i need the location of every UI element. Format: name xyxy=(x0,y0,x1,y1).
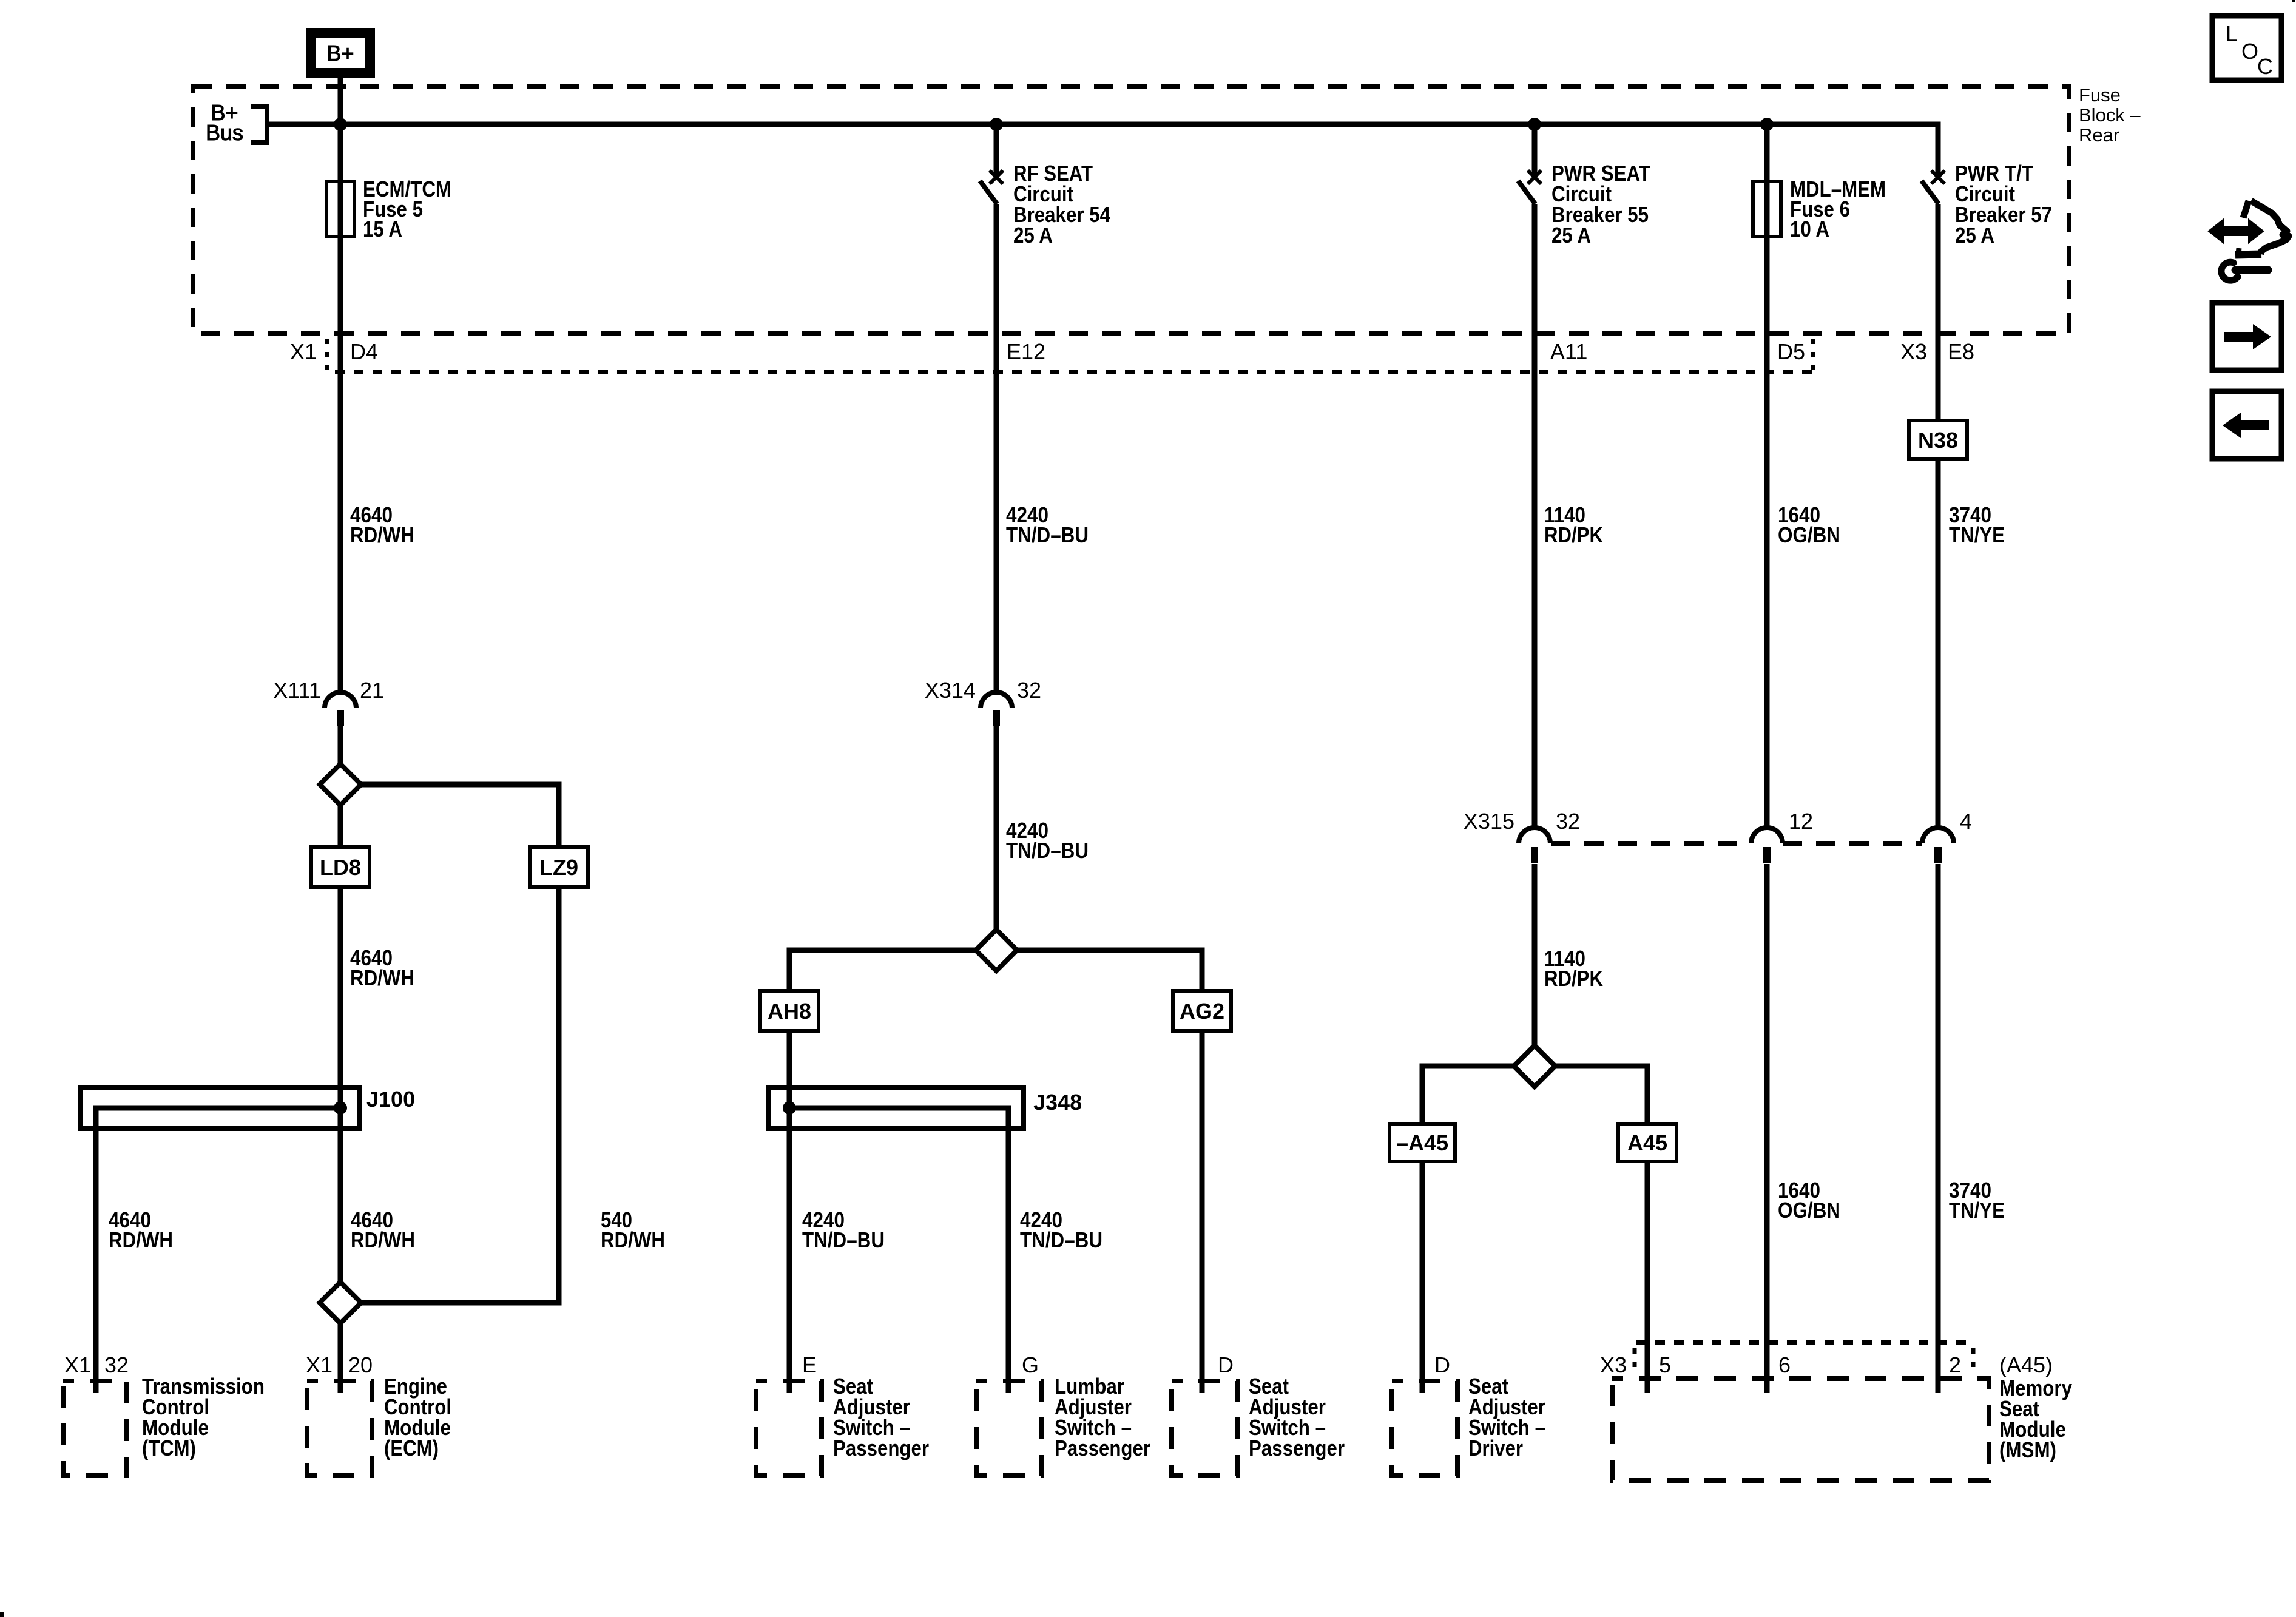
wire 12 connector to MSM pin 6 xyxy=(1764,864,1770,1393)
svg-text:32: 32 xyxy=(104,1352,129,1377)
back arrow icon xyxy=(2212,391,2281,459)
svg-text:4: 4 xyxy=(1960,809,1972,834)
wire col2 bus to breaker xyxy=(994,124,999,175)
svg-text:X3: X3 xyxy=(1900,339,1927,364)
svg-text:E12: E12 xyxy=(1007,339,1045,364)
wire col3 bus to breaker xyxy=(1532,124,1538,175)
svg-text:12: 12 xyxy=(1789,809,1813,834)
svg-text:X111: X111 xyxy=(273,678,321,703)
wire LD8 down through J100 to S4 xyxy=(338,887,343,1282)
fusible link N38 xyxy=(1909,420,1967,459)
page artifact bottom-left xyxy=(0,1612,4,1617)
circuit breaker 57 PWR T/T 25A xyxy=(1922,161,2052,248)
wire AH8 down through J348 to switch E xyxy=(787,1031,792,1393)
B+ bus wire xyxy=(267,124,1938,175)
pin labels X1 32 (TCM) xyxy=(64,1352,129,1377)
B+ battery feed symbol xyxy=(311,33,370,73)
svg-text:Bus: Bus xyxy=(206,120,243,145)
svg-text:AH8: AH8 xyxy=(768,999,811,1024)
pin labels X3 5 6 2 (A45) xyxy=(1600,1352,2053,1377)
svg-text:A11: A11 xyxy=(1550,339,1587,364)
wire S2 right branch to AG2 xyxy=(1017,950,1202,992)
module TCM dashed box xyxy=(63,1381,127,1476)
module Seat Adjuster Switch Passenger 1 dashed box xyxy=(756,1381,822,1476)
module ECM dashed box xyxy=(307,1381,372,1476)
dotted separator right of X3 xyxy=(1633,1348,1637,1375)
splice pack J348 xyxy=(769,1087,1082,1129)
svg-text:6: 6 xyxy=(1778,1352,1791,1377)
dotted separator left of D4 xyxy=(325,339,329,370)
wire S4 to ECM xyxy=(338,1323,343,1393)
dotted line above MSM pins xyxy=(1636,1340,1971,1345)
wire A45 to MSM pin 5 xyxy=(1645,1161,1650,1393)
splice pack J100 xyxy=(80,1087,415,1129)
svg-text:L: L xyxy=(2226,21,2238,46)
svg-text:X1: X1 xyxy=(290,339,317,364)
svg-text:LD8: LD8 xyxy=(320,855,361,880)
svg-text:E8: E8 xyxy=(1948,339,1974,364)
wire J100 tap to TCM xyxy=(96,1108,340,1393)
page artifact top-right xyxy=(2292,0,2295,2)
module Lumbar Adjuster Switch Passenger dashed box xyxy=(976,1381,1042,1476)
splice S2 xyxy=(976,930,1017,971)
forward arrow icon xyxy=(2212,303,2281,370)
svg-text:X1: X1 xyxy=(306,1352,333,1377)
component view icon (car outline, arrow, wrench) xyxy=(2210,201,2289,280)
svg-text:J348: J348 xyxy=(1033,1090,1082,1115)
junction node J348 xyxy=(783,1101,796,1115)
svg-text:–A45: –A45 xyxy=(1396,1130,1448,1155)
svg-text:G: G xyxy=(1022,1352,1039,1377)
svg-text:D5: D5 xyxy=(1777,339,1805,364)
wire 4 connector to MSM pin 2 xyxy=(1936,864,1941,1393)
splice S4 xyxy=(320,1282,361,1323)
dotted separator right of D5 xyxy=(1811,339,1815,370)
connector -A45 xyxy=(1389,1124,1455,1161)
fusible link AG2 xyxy=(1173,991,1231,1031)
svg-text:X1: X1 xyxy=(64,1352,91,1377)
wire AG2 down to switch D xyxy=(1200,1031,1205,1393)
pin labels X3 E8 xyxy=(1900,339,1974,364)
wire col1 bus to X111 xyxy=(338,124,343,692)
svg-text:32: 32 xyxy=(1556,809,1580,834)
fuse F6 MDL-MEM 10A xyxy=(1753,177,1886,241)
fusible link AH8 xyxy=(760,991,819,1031)
pin labels X1 D4 xyxy=(290,339,378,364)
wire col4 bus to 12 connector xyxy=(1764,124,1770,829)
junction node bus/col2 xyxy=(990,118,1003,131)
wire S3 left branch to -A45 xyxy=(1422,1066,1514,1125)
fusible link LZ9 xyxy=(530,847,588,887)
svg-text:C: C xyxy=(2257,54,2273,79)
svg-text:N38: N38 xyxy=(1918,428,1958,453)
wire -A45 to driver switch xyxy=(1420,1161,1425,1393)
module Memory Seat Module dashed box xyxy=(1612,1379,1989,1480)
wire S2 left branch to AH8 xyxy=(789,950,976,992)
connector X314 pin 32 xyxy=(925,678,1041,726)
wire X315 to S3 xyxy=(1532,864,1538,1045)
wire N38 to 4 connector xyxy=(1936,459,1941,829)
LOC hotlink icon xyxy=(2212,16,2281,80)
svg-text:E: E xyxy=(802,1352,817,1377)
svg-text:AG2: AG2 xyxy=(1180,999,1224,1024)
svg-text:2: 2 xyxy=(1949,1352,1961,1377)
wire X111 to splice S1 xyxy=(338,726,343,766)
svg-text:X315: X315 xyxy=(1464,809,1514,834)
wire S1 right branch to LZ9 xyxy=(361,785,559,848)
dashed connector row X315 xyxy=(1551,841,1922,846)
fusible link LD8 xyxy=(311,847,370,887)
svg-text:J100: J100 xyxy=(366,1087,415,1112)
wire B+ drop to bus xyxy=(338,73,343,124)
svg-text:B+: B+ xyxy=(326,41,354,66)
svg-text:LZ9: LZ9 xyxy=(539,855,578,880)
svg-text:D: D xyxy=(1434,1352,1450,1377)
svg-text:21: 21 xyxy=(360,678,384,703)
svg-text:5: 5 xyxy=(1659,1352,1671,1377)
connector A45 xyxy=(1618,1124,1676,1161)
svg-text:D4: D4 xyxy=(350,339,378,364)
junction node bus/col4 xyxy=(1760,118,1774,131)
fuse block dashed border xyxy=(193,87,2069,333)
circuit breaker 55 PWR SEAT 25A xyxy=(1518,161,1650,248)
module Seat Adjuster Switch Driver dashed box xyxy=(1392,1381,1457,1476)
wire col3 breaker to X315 xyxy=(1532,204,1538,829)
wire LZ9 down to S4 right branch xyxy=(361,887,559,1303)
svg-text:(A45): (A45) xyxy=(1999,1352,2053,1377)
svg-text:20: 20 xyxy=(348,1352,373,1377)
connector 12 on X315 row xyxy=(1751,809,1813,863)
wire col2 breaker to X314 xyxy=(994,204,999,692)
circuit breaker 54 RF SEAT 25A xyxy=(980,161,1110,248)
pin labels X1 20 (ECM) xyxy=(306,1352,373,1377)
dotted separator left of (A45) xyxy=(1971,1348,1976,1375)
splice S1 xyxy=(320,764,361,805)
wire col5 breaker to N38 xyxy=(1936,204,1941,422)
svg-text:D: D xyxy=(1218,1352,1234,1377)
svg-text:A45: A45 xyxy=(1627,1130,1667,1155)
fuse F5 ECM/TCM 15A xyxy=(326,177,451,241)
dotted connector line X1..D5 xyxy=(335,370,1813,374)
svg-text:X3: X3 xyxy=(1600,1352,1627,1377)
svg-text:O: O xyxy=(2241,39,2258,64)
junction node bus/col1 xyxy=(334,118,347,131)
junction node bus/col3 xyxy=(1528,118,1541,131)
connector X111 pin 21 xyxy=(273,678,384,726)
connector 4 on X315 row xyxy=(1922,809,1972,863)
splice S3 xyxy=(1514,1045,1555,1087)
wire J348 tap to switch G xyxy=(789,1108,1008,1393)
B+ Bus tap bracket xyxy=(206,100,267,145)
wire S3 right branch to A45 xyxy=(1555,1066,1647,1125)
wire S1 to LD8 xyxy=(338,805,343,848)
svg-text:X314: X314 xyxy=(925,678,976,703)
junction node J100 xyxy=(334,1101,347,1115)
connector X315 pin 32 xyxy=(1464,809,1580,863)
svg-text:32: 32 xyxy=(1017,678,1041,703)
module Seat Adjuster Switch Passenger 2 dashed box xyxy=(1172,1381,1237,1476)
wire X314 to S2 xyxy=(994,726,999,930)
